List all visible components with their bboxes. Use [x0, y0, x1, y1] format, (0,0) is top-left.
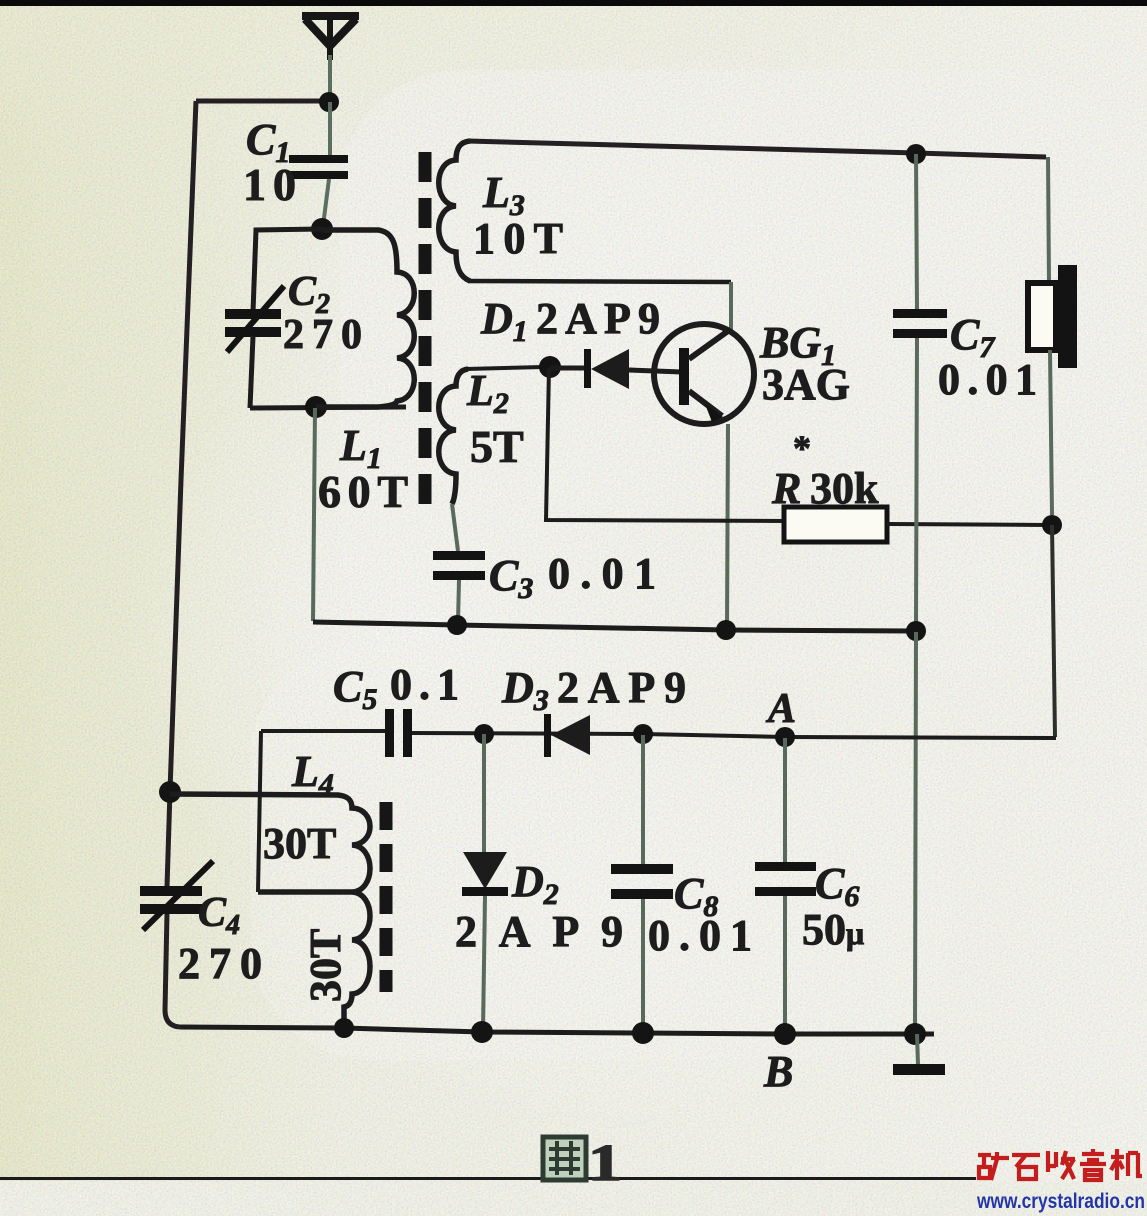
node top-right junction [906, 144, 926, 164]
node antenna junction [319, 92, 339, 112]
wire antenna node down to C1 [328, 102, 332, 156]
capacitor C5 0.1 [261, 709, 412, 757]
scan black top bar [0, 0, 1147, 6]
speaker [1028, 265, 1077, 515]
diode D2 2AP9 [462, 734, 508, 1030]
transformer core (dashed) L1/L3/L2 [419, 152, 432, 520]
wire L3 top to right rail [468, 141, 1046, 157]
glyph shou [1048, 1151, 1075, 1179]
wire C5 left down to L4 tap [258, 731, 261, 892]
left rail [165, 101, 196, 1027]
wire C7 rail down to bottom [915, 632, 916, 1031]
label C7 0.01 [938, 310, 1037, 404]
label L4 [263, 747, 350, 1002]
wire top-left (antenna node to left rail) [196, 99, 322, 104]
label BG1 3AG [759, 318, 850, 409]
node C8 top [633, 724, 653, 744]
svg-text:270: 270 [283, 312, 362, 358]
capacitor C8 0.01 [611, 735, 673, 1030]
capacitor C4 (variable) 270 [140, 861, 213, 930]
glyph kuang [978, 1152, 1009, 1180]
glyph yin [1080, 1149, 1106, 1180]
wire L2 top to D1 node [466, 367, 543, 369]
capacitor C2 (variable) [225, 286, 284, 408]
svg-text:0.01: 0.01 [648, 911, 752, 960]
capacitor C7 0.01 [893, 154, 947, 627]
svg-text:B: B [763, 1047, 793, 1096]
node A [775, 727, 795, 747]
capacitor C3 0.01 [433, 551, 485, 622]
wire C2 loop bottom [250, 407, 406, 408]
label C1 10 [243, 115, 296, 210]
inductor L4 30T/30T [170, 794, 370, 1026]
svg-text:30k: 30k [810, 464, 879, 513]
resistor R 30k [784, 507, 1048, 542]
label C5 0.1 [333, 660, 459, 716]
wire L2 bottom to C3 [452, 504, 458, 551]
node C1 bottom junction [311, 218, 333, 240]
wire common row y625 [313, 622, 916, 631]
label R 30k with asterisk [771, 428, 879, 513]
inductor L2 5T [439, 369, 468, 504]
inductor L3 10T [439, 141, 470, 281]
label L3 10T [473, 168, 563, 263]
label D3 2AP9 [501, 663, 686, 717]
label C2 270 [283, 269, 362, 358]
svg-text:R: R [771, 464, 801, 513]
node C8 bottom [632, 1022, 654, 1044]
glyph shi [1012, 1155, 1040, 1179]
svg-text:60T: 60T [318, 466, 408, 517]
node row-C3 [447, 615, 467, 635]
antenna [302, 13, 359, 95]
node row-C7 [906, 621, 926, 641]
node D1 junction [539, 356, 561, 378]
svg-text:5T: 5T [470, 421, 524, 472]
capacitor C1 [289, 155, 348, 226]
node L1 bottom junction [305, 396, 327, 418]
node row-emitter [716, 620, 736, 640]
capacitor C6 50u [755, 738, 816, 1033]
label L2 5T [466, 366, 524, 472]
svg-text:30T: 30T [301, 929, 350, 1002]
wire L3 bottom to collector [468, 281, 731, 282]
diode D3 2AP9 [544, 714, 590, 757]
svg-text:10T: 10T [473, 214, 563, 263]
svg-text:3AG: 3AG [762, 360, 850, 409]
svg-text:*: * [793, 428, 811, 468]
wire C2 loop top [253, 229, 322, 312]
node D2 top [474, 724, 494, 744]
inductor L1 60T [316, 230, 414, 407]
label D2 2AP9 [455, 857, 623, 956]
svg-text:www.crystalradio.cn: www.crystalradio.cn [976, 1190, 1145, 1213]
label C4 270 [178, 890, 262, 988]
label L1 60T [318, 421, 408, 517]
caption 图1 [543, 1135, 622, 1192]
node R-right junction [1042, 515, 1062, 535]
node left rail L4 junction [159, 781, 181, 803]
wire L1 bottom down to row [313, 408, 315, 621]
bottom horizontal rule [0, 1177, 976, 1180]
wire bottom row B [180, 1027, 934, 1034]
svg-text:0.1: 0.1 [390, 660, 459, 709]
svg-text:270: 270 [178, 939, 262, 988]
wire emitter down [727, 424, 728, 628]
ground [893, 1034, 945, 1075]
glyph ji [1111, 1149, 1142, 1180]
svg-text:1: 1 [588, 1135, 622, 1192]
watermark red CJK "kuang shi shou yin ji" [978, 1149, 1142, 1180]
svg-text:30T: 30T [263, 819, 336, 868]
wire A row [412, 733, 1056, 738]
label C8 0.01 [648, 869, 752, 960]
node C6 bottom [774, 1023, 796, 1045]
transformer core L4 (dashed) [380, 802, 393, 992]
label C3 0.01 [489, 549, 656, 605]
svg-text:0.01: 0.01 [938, 355, 1037, 404]
diode D1 2AP9 [550, 349, 682, 389]
node L4 bottom [334, 1018, 354, 1038]
svg-text:A: A [765, 686, 796, 732]
wire D1 node down and right to R [546, 368, 784, 521]
node D2 bottom [471, 1021, 493, 1043]
svg-text:0.01: 0.01 [548, 549, 656, 598]
node ground junction [904, 1023, 926, 1045]
label D1 2AP9 [480, 294, 660, 348]
transistor BG1 3AG [654, 324, 754, 424]
wire right rail down to A row [1052, 525, 1055, 737]
label C6 50u [802, 859, 864, 954]
